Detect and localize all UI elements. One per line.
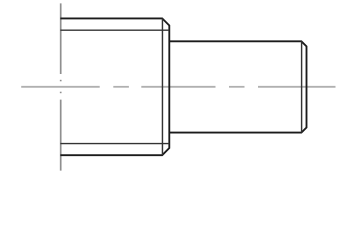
horizontal centerline (dash-dot axis) — [21, 86, 335, 88]
edge line: upper inner edge of large cylinder — [60, 29, 169, 31]
edge line: lower inner edge of large cylinder — [60, 143, 169, 145]
vertical centerline (dash-dot axis, left face) — [60, 3, 62, 170]
edge line: small cylinder chamfer circle (vertical) — [301, 41, 303, 132]
edge line: large cylinder chamfer circle (vertical) — [161, 18, 163, 155]
outline: large cylinder (flange) silhouette with chamfered right corners — [60, 18, 169, 155]
outline: small cylinder (shaft) silhouette with chamfered right corners — [169, 41, 306, 132]
